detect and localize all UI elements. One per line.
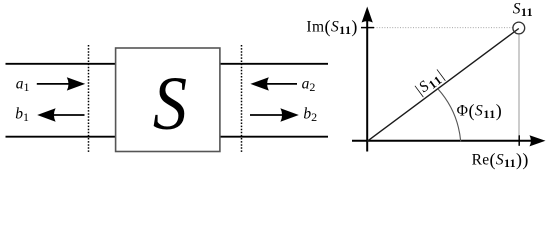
arrow a1 (incident wave port 1, pointing right) bbox=[37, 77, 85, 90]
gray projection line to Re axis bbox=[518, 34, 520, 135]
y axis (imaginary axis) bbox=[362, 7, 373, 152]
svg-text:a2: a2 bbox=[302, 75, 316, 94]
two-port network box S bbox=[116, 48, 220, 152]
vector S11 (diagonal line) bbox=[367, 29, 519, 142]
reference plane port2 (dotted line) bbox=[241, 45, 243, 152]
svg-text:a1: a1 bbox=[16, 75, 30, 94]
arrow b1 (reflected wave port 1, pointing left) bbox=[37, 108, 84, 121]
dotted projection line to Im axis bbox=[374, 27, 513, 29]
arrow b2 (reflected wave port 2, pointing right) bbox=[250, 108, 299, 121]
wire port1 top segment bbox=[6, 63, 116, 65]
svg-text:Re(S11)): Re(S11)) bbox=[472, 149, 529, 170]
svg-text:Im(S11): Im(S11) bbox=[306, 17, 357, 38]
angle arc Phi bbox=[438, 89, 461, 142]
wire port2 bottom segment bbox=[221, 136, 329, 138]
label S bbox=[153, 62, 187, 146]
svg-text:S11: S11 bbox=[513, 1, 533, 20]
wire port2 top segment bbox=[221, 63, 329, 65]
arrow a2 (incident wave port 2, pointing left) bbox=[250, 77, 297, 90]
y axis tick at Im(S11) bbox=[361, 27, 374, 29]
x axis (real axis) bbox=[352, 135, 546, 146]
x axis tick at Re(S11) bbox=[518, 135, 520, 146]
svg-text:b2: b2 bbox=[303, 106, 317, 125]
reference plane port1 (dotted line) bbox=[88, 45, 90, 152]
wire port1 bottom segment bbox=[6, 136, 116, 138]
marker circle S11 bbox=[513, 22, 525, 34]
svg-text:Φ(S11): Φ(S11) bbox=[457, 100, 503, 121]
svg-text:b1: b1 bbox=[15, 106, 29, 125]
svg-text:S: S bbox=[153, 62, 187, 146]
